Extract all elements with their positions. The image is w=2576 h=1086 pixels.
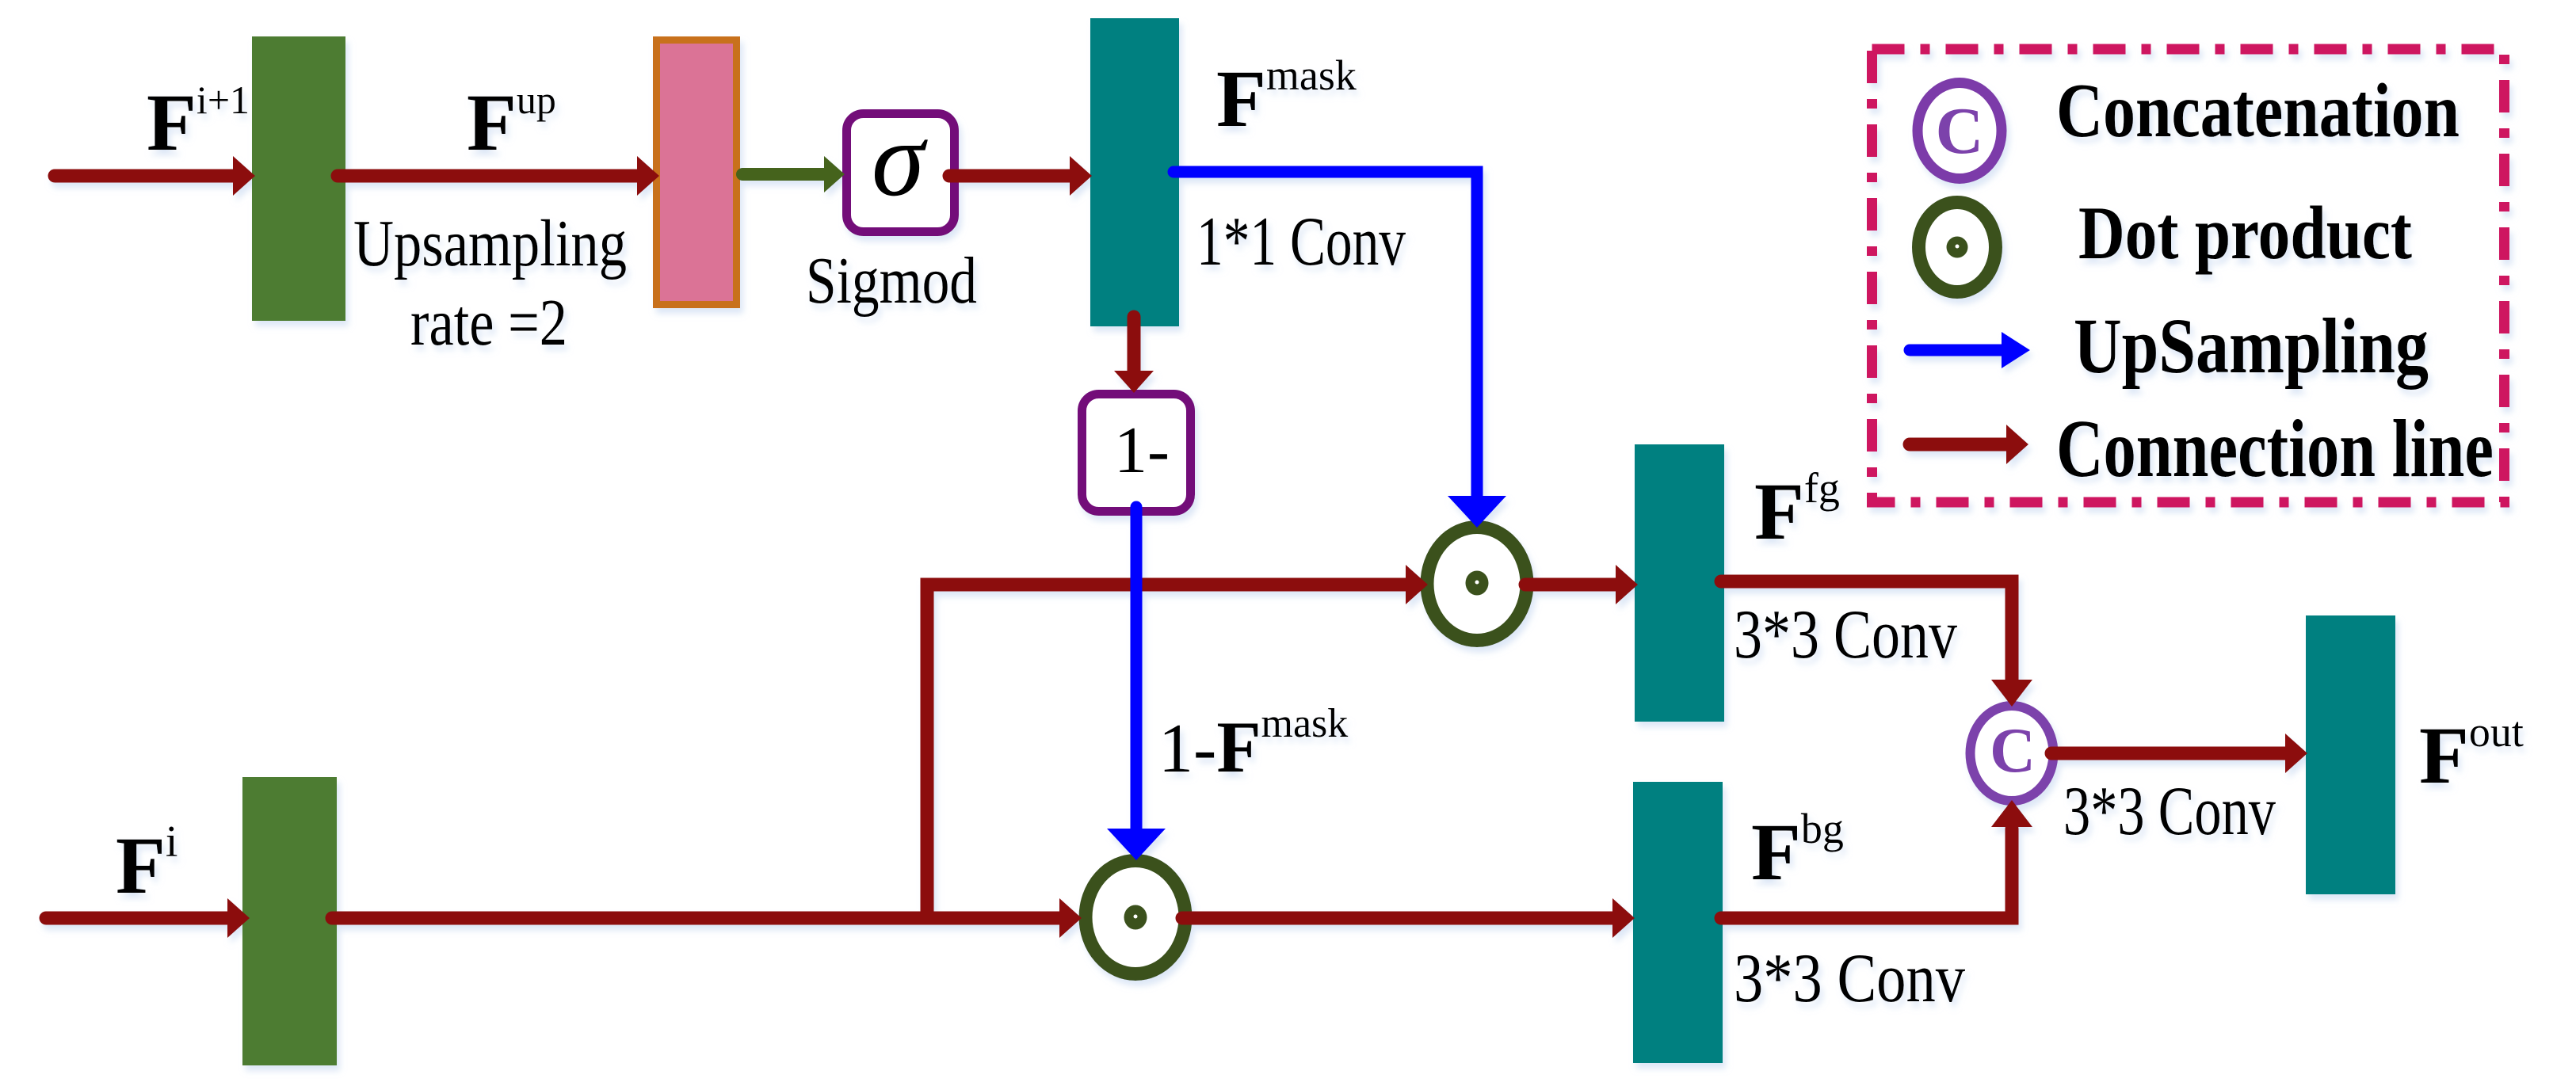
svg-text:Connection line: Connection line: [2056, 403, 2494, 494]
svg-text:Fi: Fi: [116, 817, 177, 911]
svg-text:1*1 Conv: 1*1 Conv: [1196, 204, 1406, 280]
svg-text:3*3 Conv: 3*3 Conv: [2063, 773, 2276, 850]
svg-text:Ffg: Ffg: [1754, 464, 1840, 557]
svg-text:Fup: Fup: [467, 78, 556, 168]
svg-text:Dot product: Dot product: [2078, 191, 2412, 275]
svg-text:Fmask: Fmask: [1216, 51, 1357, 144]
svg-text:Sigmod: Sigmod: [806, 244, 977, 318]
svg-text:1-Fmask: 1-Fmask: [1158, 701, 1348, 787]
svg-text:Upsampling: Upsampling: [353, 207, 627, 280]
svg-text:Fout: Fout: [2419, 708, 2524, 801]
svg-text:3*3 Conv: 3*3 Conv: [1734, 940, 1965, 1017]
svg-text:Fbg: Fbg: [1751, 805, 1844, 897]
svg-text:3*3 Conv: 3*3 Conv: [1734, 596, 1957, 673]
svg-text:σ: σ: [872, 101, 928, 219]
svg-text:UpSampling: UpSampling: [2074, 302, 2429, 390]
svg-text:Concatenation: Concatenation: [2056, 68, 2460, 153]
svg-text:C: C: [1990, 716, 2036, 786]
svg-text:rate =2: rate =2: [410, 286, 567, 360]
svg-text:1-: 1-: [1114, 413, 1170, 487]
svg-text:Fi+1: Fi+1: [147, 78, 250, 168]
svg-text:C: C: [1936, 94, 1984, 168]
